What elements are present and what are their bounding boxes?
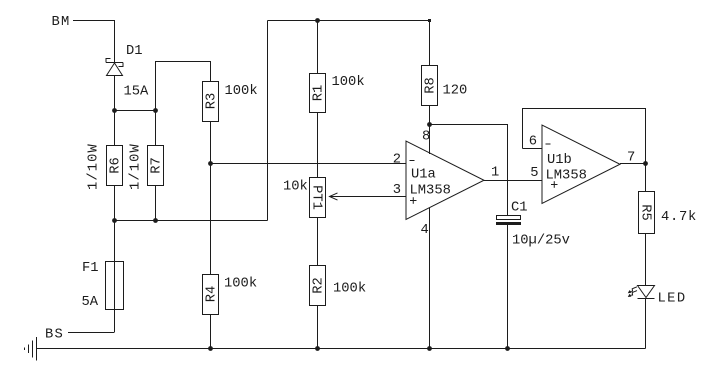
svg-text:D1: D1	[126, 44, 143, 59]
svg-text:F1: F1	[82, 261, 99, 276]
svg-text:U1a: U1a	[411, 168, 436, 183]
wire U1b output	[620, 163, 646, 165]
svg-text:8: 8	[422, 130, 430, 145]
resistor R3	[203, 82, 220, 122]
wire R8 bottom lead	[429, 106, 431, 125]
svg-text:1/10W: 1/10W	[128, 143, 144, 190]
resistor R5	[638, 192, 655, 234]
wire F1 chain	[114, 221, 116, 333]
svg-text:C1: C1	[511, 201, 528, 216]
svg-text:LM358: LM358	[546, 169, 587, 184]
wire R6 bottom lead	[114, 186, 116, 221]
wire mid bus to riser	[115, 220, 268, 222]
wire R3 to R4	[210, 122, 212, 275]
potentiometer PT1	[309, 178, 326, 218]
ground symbol	[25, 337, 37, 361]
junction dot C1 rail	[505, 346, 510, 351]
svg-text:R8: R8	[424, 77, 439, 94]
wire R4 bottom lead	[210, 315, 212, 349]
op-amp U1b	[542, 125, 620, 204]
svg-text:LM358: LM358	[410, 184, 451, 199]
wire pin 4 to ground rail	[429, 208, 431, 349]
LED D2	[628, 286, 655, 299]
wire BS lead	[68, 332, 115, 334]
svg-text:100k: 100k	[225, 83, 258, 99]
svg-text:10k: 10k	[283, 179, 308, 195]
wire BM lead	[73, 21, 115, 63]
svg-text:U1b: U1b	[547, 152, 572, 168]
wire R1 top lead	[317, 21, 319, 74]
svg-text:R5: R5	[638, 204, 653, 221]
wire node row	[115, 110, 156, 112]
wire D1 anode to node	[114, 76, 116, 111]
resistor R7	[148, 146, 165, 186]
svg-text:R2: R2	[312, 277, 327, 294]
wire top rail	[268, 20, 430, 22]
svg-text:PT1: PT1	[309, 185, 324, 210]
wire U1b feedback loop	[523, 109, 646, 164]
svg-text:1: 1	[491, 166, 499, 181]
wire R7 node to R3 top link	[156, 62, 211, 111]
svg-text:100k: 100k	[332, 74, 365, 90]
junction dot U1b output	[643, 161, 648, 166]
svg-text:R7: R7	[150, 157, 165, 174]
diode D1 (zener)	[106, 59, 123, 76]
svg-text:BS: BS	[45, 328, 64, 343]
wire R6 top lead	[114, 111, 116, 146]
wire bypass to C1	[430, 125, 508, 216]
svg-text:2: 2	[393, 153, 401, 168]
svg-text:10µ/25v: 10µ/25v	[512, 233, 570, 249]
svg-text:5A: 5A	[82, 295, 99, 310]
junction dot R7 bottom	[153, 218, 158, 223]
fuse F1	[106, 262, 124, 310]
wire R8 top lead	[429, 21, 431, 66]
junction dot R7 top	[153, 108, 158, 113]
svg-text:15A: 15A	[124, 85, 150, 100]
junction dot D1/R6	[112, 108, 117, 113]
wire R1 to PT1	[317, 113, 319, 178]
wire R5 top lead	[645, 164, 647, 192]
capacitor C1 (polarized)	[496, 216, 521, 226]
svg-text:1/10W: 1/10W	[86, 143, 102, 190]
resistor R4	[203, 275, 220, 315]
wire pin 6 stub	[523, 148, 543, 150]
wire LED bottom lead	[645, 299, 647, 349]
wire pin 8 stub	[429, 125, 431, 155]
junction dot R2 rail	[315, 346, 320, 351]
svg-text:100k: 100k	[224, 276, 257, 292]
wire left riser	[267, 21, 269, 221]
resistor R2	[310, 266, 327, 306]
svg-text:LED: LED	[658, 292, 687, 307]
resistor R8	[422, 66, 439, 106]
wire PT1 to R2	[317, 218, 319, 266]
junction dot top rail R1	[315, 18, 320, 23]
junction dot inverting bus	[208, 161, 213, 166]
wire U1a output to U1b pin 5	[484, 180, 542, 182]
svg-text:4.7k: 4.7k	[661, 209, 697, 225]
svg-text:3: 3	[393, 183, 401, 198]
wire R2 bottom lead	[317, 306, 319, 349]
resistor R6	[107, 146, 124, 186]
junction dot pin 8 node	[427, 122, 432, 127]
junction dot R4 rail	[208, 346, 213, 351]
svg-text:120: 120	[443, 84, 468, 99]
wire R5 to LED	[645, 234, 647, 286]
svg-text:R3: R3	[205, 93, 220, 110]
junction dot R6 bottom	[112, 218, 117, 223]
svg-text:R1: R1	[312, 85, 327, 102]
wire inverting bus to pin 2	[211, 163, 407, 165]
svg-text:R4: R4	[205, 286, 220, 303]
resistor R1	[310, 74, 327, 113]
junction dot pin4 rail	[427, 346, 432, 351]
svg-text:4: 4	[421, 223, 429, 238]
op-amp U1a	[406, 141, 484, 220]
ground rail	[37, 348, 646, 350]
svg-text:R6: R6	[109, 157, 124, 174]
wire R7 top lead	[155, 111, 157, 146]
wire R7 bottom lead	[155, 186, 157, 221]
wire C1 bottom lead	[507, 225, 509, 349]
svg-text:BM: BM	[52, 15, 71, 30]
corner mark top rail right	[428, 19, 431, 22]
svg-text:5: 5	[530, 166, 538, 181]
svg-text:100k: 100k	[333, 281, 366, 297]
svg-text:6: 6	[529, 135, 537, 150]
PT1 wiper arrow from pin 3	[330, 193, 407, 200]
